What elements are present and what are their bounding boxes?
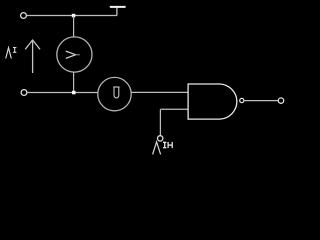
label current I (serif I superscript) — [13, 48, 16, 53]
label I_IH (serif IH superscript) — [163, 142, 172, 148]
junction node A — [72, 14, 76, 17]
current source G1 (circle with arrow) — [57, 37, 92, 72]
terminal T1 (top-left input) — [21, 13, 27, 19]
wire top horizontal from T1 to switch — [27, 15, 117, 17]
terminal T3 (IH input, bottom) — [158, 136, 163, 141]
NAND gate U1 (inversion bubble) — [240, 98, 244, 102]
label current I (Lambda glyph) — [6, 48, 12, 59]
voltmeter U (circle with U-bar glyph) — [98, 77, 131, 110]
terminal T4 (output) — [278, 98, 283, 103]
switch S (T-bar symbol top right) — [110, 7, 126, 16]
wire NAND output — [244, 100, 278, 102]
label I_IH (Lambda glyph) — [153, 142, 161, 155]
NAND gate U1 (body) — [188, 84, 237, 119]
wire vertical current source to node B — [73, 72, 75, 92]
terminal T2 (bottom-left input) — [21, 90, 27, 96]
wire bottom horizontal T2 to voltmeter — [27, 92, 98, 94]
wire voltmeter to NAND input 1 — [131, 91, 188, 93]
wire vertical node A to current source — [73, 16, 75, 38]
junction node B — [72, 91, 76, 95]
wire NAND input 2 horizontal — [160, 108, 188, 110]
wire NAND input 2 vertical — [159, 109, 161, 135]
arrow current direction (up) — [25, 40, 40, 73]
